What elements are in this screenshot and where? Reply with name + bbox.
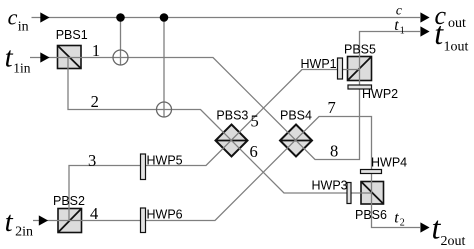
label t_1out — [434, 15, 468, 55]
wire control 1 vertical — [120, 18, 122, 66]
arrow t2in — [39, 215, 48, 225]
svg-text:3: 3 — [88, 151, 96, 170]
PBS3 — [216, 125, 248, 157]
label c_out — [435, 1, 467, 31]
label t_2 small — [394, 210, 404, 229]
CNOT target 2 — [157, 102, 172, 117]
arrow t2out — [420, 222, 429, 232]
wire line 3 line 5 — [69, 70, 360, 221]
HWP6 — [141, 208, 146, 233]
svg-text:2out: 2out — [441, 234, 466, 249]
wire PBS6 to t2out — [372, 182, 421, 228]
HWP4 — [361, 170, 382, 174]
arrow t1in — [40, 52, 49, 62]
label t_2out — [432, 210, 466, 249]
svg-text:HWP3: HWP3 — [312, 179, 348, 193]
PBS4 — [280, 125, 312, 157]
svg-text:HWP5: HWP5 — [147, 154, 183, 168]
svg-text:7: 7 — [328, 98, 336, 117]
wire t1in line 1 line 8 — [30, 58, 360, 160]
svg-text:HWP2: HWP2 — [362, 87, 398, 101]
label t_1 small — [394, 17, 404, 37]
node control dot 2 — [160, 13, 169, 22]
svg-text:1out: 1out — [444, 40, 469, 55]
svg-text:c: c — [8, 5, 18, 30]
PBS6 — [361, 182, 384, 205]
svg-text:in: in — [18, 20, 29, 35]
svg-text:1: 1 — [400, 26, 405, 37]
svg-text:PBS3: PBS3 — [216, 109, 248, 123]
arrow t1out — [420, 26, 429, 36]
label t_2in — [5, 206, 33, 239]
svg-text:PBS5: PBS5 — [344, 43, 376, 57]
svg-text:PBS4: PBS4 — [280, 109, 312, 123]
HWP3 — [347, 183, 351, 204]
HWP5 — [141, 154, 146, 180]
PBS2 — [58, 209, 82, 233]
label t_1in — [5, 42, 31, 76]
svg-text:c: c — [396, 3, 402, 18]
svg-text:HWP4: HWP4 — [371, 156, 407, 170]
svg-text:HWP6: HWP6 — [147, 208, 183, 222]
HWP1 — [338, 58, 343, 79]
wire line 2 line 6 — [68, 58, 372, 194]
arrow c_in — [40, 12, 49, 22]
PBS5 — [348, 57, 372, 81]
svg-text:2: 2 — [91, 92, 99, 111]
svg-text:4: 4 — [90, 204, 98, 223]
svg-text:t: t — [5, 206, 14, 238]
svg-text:PBS2: PBS2 — [53, 194, 85, 208]
svg-text:2: 2 — [400, 218, 405, 229]
svg-text:PBS1: PBS1 — [56, 28, 88, 42]
node control dot 1 — [116, 13, 125, 22]
label c_in — [8, 5, 29, 35]
wire c_in to c_out — [32, 17, 421, 19]
svg-text:1: 1 — [92, 41, 100, 60]
svg-text:2in: 2in — [15, 224, 33, 239]
svg-text:5: 5 — [251, 112, 259, 131]
svg-text:out: out — [448, 16, 466, 31]
svg-text:t: t — [394, 17, 399, 34]
HWP2 — [348, 85, 372, 89]
PBS1 — [58, 46, 82, 69]
svg-text:t: t — [394, 210, 399, 227]
svg-text:1in: 1in — [13, 61, 31, 76]
wire t2in line 4 line 7 — [33, 117, 372, 221]
wire PBS5 to t1out — [360, 32, 421, 81]
svg-text:6: 6 — [250, 142, 258, 161]
CNOT target 1 — [113, 50, 128, 65]
svg-text:PBS6: PBS6 — [355, 208, 387, 222]
wire control 2 vertical — [163, 18, 165, 118]
arrow c_out — [420, 12, 429, 22]
svg-text:HWP1: HWP1 — [301, 57, 337, 71]
svg-text:8: 8 — [330, 142, 338, 161]
